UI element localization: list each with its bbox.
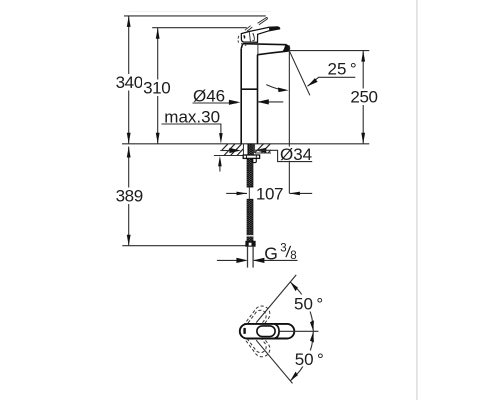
dimension 389 line — [128, 147, 130, 246]
dimension 340 line — [128, 16, 130, 144]
handle tip fill — [269, 27, 280, 31]
svg-text:50 °: 50 ° — [295, 350, 324, 369]
spout vertical extension — [288, 46, 290, 194]
counter hatch left — [222, 144, 243, 156]
counter top line — [122, 143, 369, 145]
hose gap line — [248, 187, 250, 199]
raised handle thin line 2 — [247, 27, 252, 31]
dashed handle position upper — [239, 303, 274, 342]
upper 50 arc — [290, 282, 313, 331]
arc arrowheads — [289, 280, 299, 291]
handle internal teardrop — [253, 33, 255, 41]
svg-text:Ø34: Ø34 — [280, 145, 312, 164]
hole left edge — [242, 144, 244, 156]
label 389 — [115, 188, 145, 205]
spout level extension line — [289, 50, 370, 52]
svg-text:3: 3 — [280, 243, 286, 255]
raised handle thin line 1 — [245, 26, 251, 31]
spout inner joint — [257, 45, 259, 55]
dimension 310 line — [157, 28, 159, 144]
threaded shank — [248, 144, 254, 155]
raised handle blade stroke 1 — [258, 18, 267, 24]
label Ø34 — [279, 147, 312, 161]
dashed handle position lower — [239, 321, 274, 360]
raised handle rear dash 2 — [241, 43, 246, 45]
label 50 lower — [294, 351, 325, 367]
svg-text:389: 389 — [116, 187, 143, 206]
Ø46 right arrow — [257, 101, 283, 103]
faucet body right edge — [257, 55, 259, 144]
handle base dark mark — [244, 35, 245, 38]
retaining tab — [252, 158, 256, 162]
label 310 — [142, 80, 172, 97]
max.30 lower arrow — [218, 156, 222, 167]
faucet body left edge — [240, 49, 242, 144]
head top — [243, 44, 287, 45]
lower 50 arc — [290, 331, 313, 380]
G3/8 arrows — [217, 259, 238, 261]
connection tube right — [252, 246, 254, 267]
mounting nut — [243, 155, 259, 158]
top view pill — [240, 324, 294, 339]
label 50 upper — [293, 295, 324, 312]
extension line top 340 — [124, 15, 266, 17]
Ø46 left arrow — [229, 100, 241, 105]
supply hose lower — [247, 199, 253, 241]
bottom reference line — [122, 245, 247, 247]
svg-text:25 °: 25 ° — [328, 60, 357, 79]
handle internal line 1 — [249, 32, 250, 41]
centerline right — [280, 330, 319, 332]
Ø34 leader — [255, 150, 312, 161]
hole right edge — [254, 144, 256, 153]
svg-text:250: 250 — [350, 88, 377, 107]
raised handle rear dash 1 — [237, 36, 240, 43]
connection tube left — [247, 246, 249, 267]
upper 50 deg diagonal — [256, 275, 296, 323]
label 340 — [115, 74, 145, 91]
max.30 leader — [220, 124, 222, 134]
dimension 107 — [226, 192, 247, 194]
svg-text:340: 340 — [116, 73, 143, 92]
extension line 310 — [152, 27, 247, 29]
handle lever — [241, 27, 279, 42]
top view slot — [257, 326, 275, 337]
svg-text:310: 310 — [143, 79, 170, 98]
spout tip — [283, 45, 290, 52]
counter bottom right — [255, 152, 271, 154]
label 250 — [350, 89, 380, 106]
25 deg leader — [308, 77, 356, 86]
counter hatch right — [255, 144, 271, 153]
raised handle blade stroke 2 — [259, 19, 267, 25]
counter bottom left — [214, 155, 244, 157]
svg-text:G: G — [264, 243, 278, 263]
raised handle tip hook — [266, 17, 267, 19]
svg-text:107: 107 — [256, 184, 283, 203]
handle end arc — [275, 324, 280, 338]
stream diagonal — [289, 51, 310, 96]
svg-text:8: 8 — [290, 250, 296, 262]
25 deg arc arrow — [266, 85, 285, 91]
lower 50 deg diagonal — [256, 340, 292, 383]
tick mark — [243, 328, 245, 334]
faint page divider line — [416, 0, 418, 400]
head left chamfer — [241, 44, 243, 49]
faint top artifact — [128, 11, 271, 13]
dimension 250 line — [362, 51, 364, 144]
svg-text:50 °: 50 ° — [294, 294, 323, 313]
Ø34 arrows — [220, 150, 230, 152]
body seam — [241, 88, 257, 90]
spout underside — [257, 52, 283, 55]
supply hose upper — [247, 158, 253, 187]
hex fitting — [246, 241, 255, 246]
